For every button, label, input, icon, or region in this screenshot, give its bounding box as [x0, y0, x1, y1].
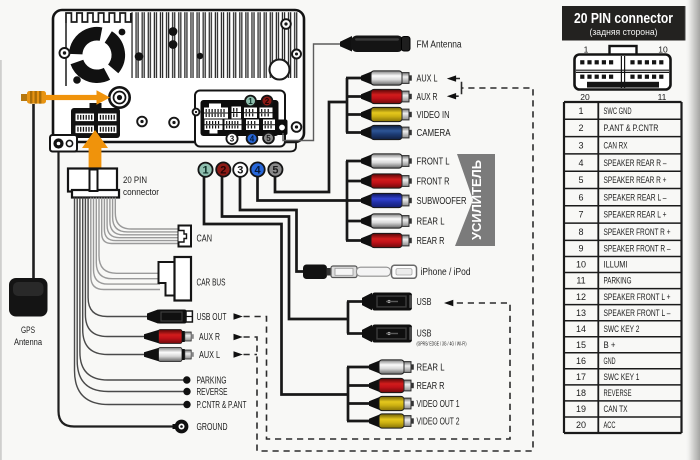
arrow USB (left) [444, 300, 453, 306]
legend circle 3 [233, 163, 247, 177]
svg-text:GPS: GPS [21, 325, 35, 335]
wire stub y=367 [347, 366, 371, 369]
svg-text:P.CNTR & P.ANT: P.CNTR & P.ANT [197, 400, 247, 411]
svg-text:iPhone / iPod: iPhone / iPod [421, 267, 471, 278]
socket number 2 (on box) [262, 96, 273, 107]
svg-text:1: 1 [584, 45, 589, 55]
wire stub y=132.5 [346, 131, 363, 134]
svg-text:14: 14 [576, 324, 586, 334]
svg-text:3: 3 [230, 134, 235, 143]
svg-text:10: 10 [576, 260, 586, 270]
dashed route AUX OUT to AUX IN [244, 88, 534, 451]
svg-text:12: 12 [576, 292, 586, 302]
wire stub y=221 [346, 220, 363, 223]
wires to USB OUT / AUX / parking etc. [75, 198, 185, 405]
svg-text:VIDEO IN: VIDEO IN [417, 110, 450, 121]
radio antenna socket [109, 87, 129, 107]
FRONT L RCA [361, 154, 412, 168]
GROUND ring terminal [173, 420, 189, 434]
wire stub y=161 [346, 160, 363, 163]
svg-text:20: 20 [576, 420, 586, 430]
svg-text:SPEAKER FRONT L –: SPEAKER FRONT L – [604, 308, 671, 318]
20-pin socket on unit (black block) [71, 103, 120, 138]
svg-text:2: 2 [220, 164, 226, 176]
wire stub y=78 [346, 77, 363, 80]
wire from circle 4 to speaker RCA group [258, 177, 348, 201]
svg-text:ILLUMI: ILLUMI [604, 260, 628, 270]
svg-text:11: 11 [576, 276, 585, 286]
SUBWOOFER RCA [361, 193, 412, 207]
svg-text:20 PIN connector: 20 PIN connector [574, 11, 673, 27]
svg-text:CAN: CAN [197, 234, 213, 245]
svg-text:REAR L: REAR L [417, 363, 445, 374]
svg-text:REAR R: REAR R [417, 381, 445, 392]
white multi-pin sockets inside box [204, 104, 275, 134]
svg-text:REVERSE: REVERSE [197, 387, 228, 398]
wire stub y=385.5 [347, 384, 371, 387]
orange antenna adapter plug [21, 91, 46, 104]
REAR R RCA (out) [369, 378, 414, 392]
FRONT R RCA [361, 174, 412, 188]
svg-text:SPEAKER REAR R +: SPEAKER REAR R + [604, 175, 667, 185]
black side tab with socket [277, 120, 288, 136]
svg-text:4: 4 [578, 158, 583, 168]
GPS antenna [9, 278, 48, 317]
orange arrow pointing up at 20-pin socket [82, 130, 108, 168]
USB trunk wire [347, 302, 350, 334]
arrow AUX R (right) [234, 334, 243, 341]
wire from circle 2 to USB group [222, 177, 348, 319]
pinout connector drawing [575, 46, 671, 90]
arrow AUX L (right) [234, 351, 243, 358]
legend circle 5 [268, 162, 282, 176]
svg-text:ACC: ACC [604, 420, 616, 430]
svg-text:15: 15 [576, 340, 586, 350]
svg-text:5: 5 [578, 175, 583, 185]
svg-text:PARKING: PARKING [197, 376, 227, 387]
svg-text:(GPRS/ EDGE / 3G / 4G / WI-FI): (GPRS/ EDGE / 3G / 4G / WI-FI) [417, 342, 467, 348]
heatsink fins (vertical slots) [131, 12, 299, 83]
svg-text:SUBWOOFER: SUBWOOFER [417, 196, 467, 207]
svg-text:SWC GND: SWC GND [604, 106, 632, 116]
round vent hole [270, 60, 290, 80]
corner socket connector (bottom-left of unit) [50, 135, 77, 152]
svg-text:AUX L: AUX L [199, 350, 220, 361]
AUX L plug (left) [144, 348, 194, 362]
wire from circle 3 to iPhone plug [240, 177, 304, 272]
svg-text:VIDEO OUT 2: VIDEO OUT 2 [417, 417, 460, 428]
orange arrow to antenna socket [46, 90, 110, 104]
legend circle 1 [198, 163, 212, 177]
svg-text:PARKING: PARKING [604, 276, 632, 286]
svg-text:P.ANT & P.CNTR: P.ANT & P.CNTR [604, 123, 659, 133]
speaker group trunk wire [346, 161, 349, 241]
svg-text:2: 2 [265, 97, 270, 106]
wire stub y=200.5 [346, 199, 363, 202]
arrow AUX L top (left) [447, 75, 456, 81]
wire harness ribbon from 20 PIN plug [91, 198, 178, 290]
svg-text:3: 3 [237, 165, 243, 177]
screw (left edge) [60, 48, 70, 58]
socket number 5 (on box) [263, 133, 274, 144]
REAR L RCA [361, 214, 412, 228]
svg-text:1: 1 [248, 97, 253, 106]
svg-text:11: 11 [658, 92, 667, 102]
scan shadow right edge [684, 0, 700, 460]
svg-text:SPEAKER REAR L –: SPEAKER REAR L – [604, 192, 667, 202]
screw (right edge lower) [292, 122, 302, 132]
svg-text:6: 6 [578, 192, 583, 202]
wire stub y=240.5 [346, 239, 363, 242]
svg-text:B +: B + [604, 340, 616, 350]
svg-text:(задняя сторона): (задняя сторона) [590, 27, 658, 37]
wire stub y=181 [346, 180, 363, 183]
svg-text:VIDEO OUT 1: VIDEO OUT 1 [417, 399, 460, 410]
rivet dots on chassis [119, 29, 126, 36]
svg-text:20: 20 [580, 92, 590, 102]
head unit bottom lip [62, 142, 296, 152]
svg-text:10: 10 [658, 45, 668, 55]
svg-text:1: 1 [578, 106, 583, 116]
svg-text:16: 16 [576, 356, 586, 366]
wire stub y=114.5 [346, 113, 363, 116]
svg-text:7: 7 [578, 210, 583, 220]
svg-text:SPEAKER REAR L +: SPEAKER REAR L + [604, 210, 667, 220]
svg-text:SPEAKER REAR R –: SPEAKER REAR R – [604, 158, 667, 168]
svg-text:3: 3 [578, 140, 583, 150]
svg-text:4: 4 [255, 164, 262, 176]
FM antenna wire [283, 44, 342, 141]
screw (center-left below fan) [137, 117, 147, 127]
svg-text:USB: USB [417, 297, 432, 308]
svg-text:1: 1 [202, 165, 208, 177]
AV out trunk wire [347, 367, 350, 421]
PARKING wire terminal [183, 376, 190, 383]
AV input trunk wire [346, 78, 349, 133]
iPhone/iPod plug chain [303, 265, 417, 280]
svg-text:4: 4 [250, 134, 255, 143]
svg-text:SPEAKER FRONT R –: SPEAKER FRONT R – [604, 244, 671, 254]
GPS antenna wire [32, 104, 35, 279]
AUX R plug (left) [144, 330, 194, 344]
scan line left edge [0, 60, 2, 460]
REAR L RCA (out) [369, 360, 414, 374]
svg-text:8: 8 [578, 227, 583, 237]
socket number 4 (on box) [247, 133, 258, 144]
REVERSE wire terminal [183, 388, 190, 395]
cooling fan [68, 26, 127, 85]
VIDEO IN RCA [361, 107, 412, 121]
CAR BUS connector [159, 257, 192, 301]
svg-text:2: 2 [578, 123, 583, 133]
wire stub y=421 [347, 420, 371, 423]
wire stub y=403.5 [347, 402, 371, 405]
legend circle 2 [216, 162, 230, 176]
socket number 1 (on box) [245, 96, 256, 107]
USB plug 2 [362, 325, 412, 343]
screw left of plate [193, 109, 200, 116]
USB plug 1 [362, 293, 412, 311]
svg-text:9: 9 [578, 244, 583, 254]
svg-text:FRONT L: FRONT L [417, 157, 450, 168]
GROUND wire [59, 152, 175, 427]
REAR R RCA [361, 233, 412, 247]
20 PIN cable connector (white plug) [68, 169, 119, 198]
socket number 3 (on box) [226, 133, 237, 144]
svg-text:AUX L: AUX L [417, 74, 438, 85]
head unit rear panel body [53, 10, 304, 142]
svg-text:13: 13 [576, 308, 586, 318]
wire from circle 5 to AV input group [275, 102, 348, 192]
svg-text:USB OUT: USB OUT [197, 312, 227, 323]
svg-text:REAR R: REAR R [417, 236, 445, 247]
svg-text:SPEAKER FRONT L +: SPEAKER FRONT L + [604, 292, 671, 302]
AUX R RCA (input) [361, 89, 412, 103]
svg-text:5: 5 [266, 134, 271, 143]
screw (right edge upper) [292, 50, 301, 59]
svg-text:19: 19 [576, 404, 586, 414]
svg-text:GND: GND [604, 356, 616, 366]
heatsink comb (top-left) [66, 13, 131, 23]
CAMERA RCA [361, 125, 412, 139]
svg-text:SWC KEY 1: SWC KEY 1 [604, 372, 640, 382]
harness socket box (black) [201, 100, 279, 136]
svg-text:CAN RX: CAN RX [604, 140, 628, 150]
pinout panel header [562, 6, 686, 41]
CAN connector [179, 226, 192, 247]
VIDEO OUT 1 RCA [369, 396, 414, 410]
left inner frame line [65, 23, 67, 86]
dashed route USB OUT to USB [244, 303, 511, 439]
svg-text:AUX R: AUX R [417, 92, 438, 103]
screw (center below fins) [169, 118, 179, 128]
svg-text:REVERSE: REVERSE [604, 388, 632, 398]
svg-text:17: 17 [576, 372, 586, 382]
svg-text:20 PIN: 20 PIN [123, 175, 147, 186]
svg-text:Antenna: Antenna [14, 337, 42, 347]
svg-text:REAR L: REAR L [417, 217, 445, 228]
FM antenna plug [340, 36, 410, 53]
AUX L RCA (input) [361, 71, 412, 85]
svg-text:5: 5 [272, 164, 278, 176]
connector plate (white) on unit right [195, 91, 285, 147]
P.CNTR & P.ANT wire terminal [183, 401, 190, 408]
VIDEO OUT 2 RCA [369, 414, 414, 428]
arrow AUX R top (left) [447, 93, 456, 99]
svg-text:УСИЛИТЕЛЬ: УСИЛИТЕЛЬ [469, 160, 484, 240]
wire stub y=96.5 [346, 95, 363, 98]
svg-text:FM Antenna: FM Antenna [417, 40, 462, 51]
svg-text:CAR BUS: CAR BUS [197, 278, 226, 289]
svg-text:AUX R: AUX R [199, 332, 220, 343]
svg-text:CAN TX: CAN TX [604, 404, 628, 414]
amplifier banner (УСИЛИТЕЛЬ) [455, 154, 495, 246]
svg-text:connector: connector [123, 187, 159, 198]
legend circle 4 [251, 162, 265, 176]
pinout table [564, 102, 682, 433]
wire from circle 1 to rear AV group [204, 177, 348, 395]
svg-text:SPEAKER FRONT R +: SPEAKER FRONT R + [604, 227, 671, 237]
svg-text:FRONT R: FRONT R [417, 177, 450, 188]
svg-text:CAMERA: CAMERA [417, 128, 451, 139]
svg-text:18: 18 [576, 388, 586, 398]
USB OUT plug [147, 310, 192, 324]
svg-text:GROUND: GROUND [197, 422, 228, 433]
svg-text:SWC KEY 2: SWC KEY 2 [604, 324, 640, 334]
svg-text:USB: USB [417, 329, 432, 340]
arrow USB OUT (right) [234, 313, 243, 320]
screw (top right) [281, 19, 291, 29]
